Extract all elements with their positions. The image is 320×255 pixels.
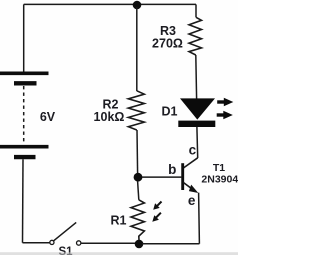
resistor R1 zigzag <box>131 200 144 240</box>
wire switch to node B <box>81 242 136 244</box>
svg-text:D1: D1 <box>162 105 178 119</box>
wire left vertical upper <box>23 4 25 71</box>
switch S1 arm <box>54 222 77 240</box>
photo arrow 1 into R1 <box>153 202 161 210</box>
switch S1 pivot contact <box>50 240 54 244</box>
svg-text:2N3904: 2N3904 <box>201 174 238 186</box>
wire top horizontal <box>24 3 196 5</box>
wire R2 to node M <box>136 130 139 174</box>
wire base from node M <box>142 176 181 178</box>
scan shadow bottom edge <box>0 252 238 255</box>
transistor T1 emitter diagonal <box>183 183 195 192</box>
transistor T1 emitter arrowhead <box>189 185 198 193</box>
node M junction dot <box>134 173 143 182</box>
wire node B to bottom right corner <box>142 243 199 245</box>
svg-text:T1: T1 <box>213 162 225 174</box>
switch S1 open contact <box>77 241 81 245</box>
wire bottom left to switch <box>23 242 50 244</box>
photo arrow 2 into R1 <box>152 213 161 222</box>
wire node T down to R2 <box>136 7 138 91</box>
transistor T1 base bar <box>181 163 184 190</box>
wire node M down to R1 <box>138 181 139 200</box>
svg-text:c: c <box>189 143 197 158</box>
battery B1 plate negative top <box>14 81 37 85</box>
node T junction dot <box>133 1 142 10</box>
svg-text:b: b <box>168 162 176 177</box>
battery B1 plate positive bottom <box>0 145 49 149</box>
LED D1 cathode bar <box>178 121 215 127</box>
resistor R3 zigzag <box>189 17 202 55</box>
svg-text:e: e <box>188 193 196 208</box>
wire top right corner to R3 <box>195 4 197 17</box>
svg-text:270Ω: 270Ω <box>152 36 183 50</box>
battery B1 6V plate positive top <box>0 72 49 76</box>
battery B1 dashed cell link <box>23 86 25 145</box>
node B junction dot <box>135 240 144 249</box>
LED D1 triangle <box>180 98 215 119</box>
LED D1 emission arrow lower <box>217 111 233 120</box>
svg-text:10kΩ: 10kΩ <box>94 110 125 124</box>
resistor R2 zigzag <box>128 91 144 130</box>
wire right vertical emitter branch <box>198 193 201 244</box>
wire LED to collector bend <box>196 127 199 158</box>
LED D1 emission arrow upper <box>217 98 233 107</box>
wire left vertical lower <box>22 159 25 242</box>
wire R3 to LED D1 <box>195 55 198 99</box>
transistor T1 collector diagonal <box>183 158 197 168</box>
svg-text:R1: R1 <box>111 214 127 228</box>
battery B1 plate negative bottom <box>14 155 36 159</box>
svg-text:6V: 6V <box>40 110 56 124</box>
